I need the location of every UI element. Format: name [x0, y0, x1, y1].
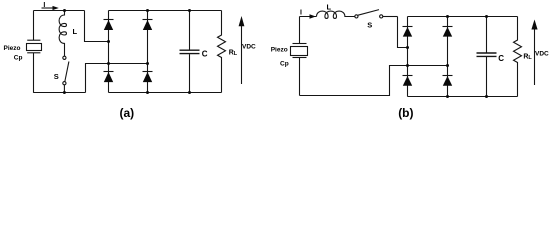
svg-text:C: C — [498, 54, 504, 63]
svg-text:(a): (a) — [120, 106, 135, 120]
svg-text:Piezo: Piezo — [271, 47, 288, 54]
svg-text:I: I — [300, 10, 302, 17]
svg-text:L: L — [327, 2, 332, 11]
svg-text:L: L — [234, 51, 238, 57]
svg-text:L: L — [528, 55, 532, 61]
svg-text:VDC: VDC — [535, 51, 549, 58]
svg-text:(b): (b) — [398, 106, 413, 120]
svg-text:C: C — [202, 50, 208, 59]
svg-text:S: S — [367, 21, 372, 30]
svg-text:I: I — [43, 2, 45, 9]
svg-text:S: S — [54, 72, 59, 81]
svg-text:VDC: VDC — [242, 44, 256, 51]
svg-text:L: L — [73, 27, 78, 36]
svg-text:Cp: Cp — [14, 55, 23, 62]
svg-text:Cp: Cp — [280, 61, 289, 68]
svg-text:Piezo: Piezo — [4, 45, 21, 52]
